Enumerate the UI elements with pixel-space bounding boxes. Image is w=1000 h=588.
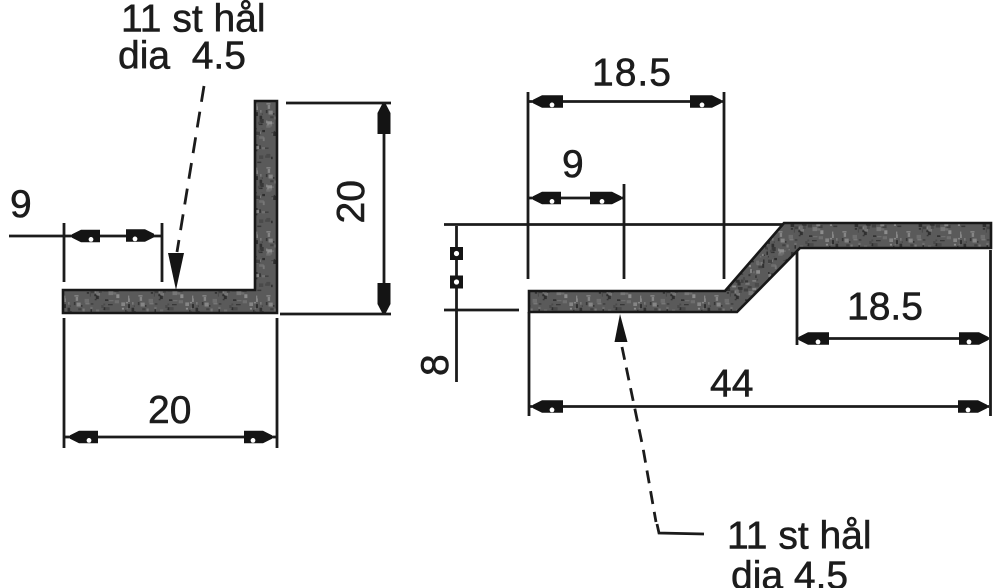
svg-text:dia 4.5: dia 4.5 — [731, 555, 848, 588]
svg-text:20: 20 — [330, 180, 373, 223]
svg-text:9: 9 — [562, 143, 584, 186]
svg-text:18.5: 18.5 — [592, 52, 672, 95]
svg-text:dia 4.5: dia 4.5 — [118, 35, 246, 78]
svg-text:20: 20 — [148, 389, 191, 432]
svg-text:44: 44 — [710, 363, 753, 406]
svg-text:8: 8 — [414, 354, 457, 376]
svg-text:18.5: 18.5 — [847, 286, 923, 329]
svg-text:11 st hål: 11 st hål — [727, 515, 872, 558]
svg-text:9: 9 — [10, 183, 32, 226]
